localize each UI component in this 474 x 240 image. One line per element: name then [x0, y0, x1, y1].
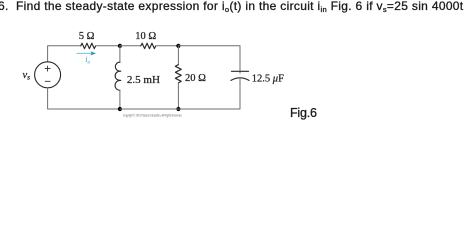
svg-text:2.5 mH: 2.5 mH: [127, 74, 160, 86]
wire: top rail between 5 ohm and node A: [96, 45, 120, 47]
wire: top rail between 10 ohm and node B: [156, 45, 179, 47]
inductor L 2.5mH (vertical coil): [115, 62, 121, 90]
wire: right rail bottom (capacitor to bottom rail): [239, 78, 241, 109]
wire: top rail from node B to top-right corner: [178, 46, 240, 73]
svg-text:vs: vs: [23, 70, 31, 82]
resistor R 10ohm (horizontal zigzag): [141, 43, 156, 48]
wire: bottom rail: [120, 108, 240, 110]
wire: top rail between node A and 10 ohm: [120, 45, 141, 47]
svg-text:10 Ω: 10 Ω: [135, 31, 156, 42]
svg-text:12.5 μF: 12.5 μF: [252, 73, 284, 84]
node B (junction dot, top of 20 ohm branch): [176, 44, 180, 48]
wire: inductor branch top lead: [119, 46, 121, 62]
wire: 20 ohm branch bottom lead: [177, 83, 179, 109]
minus sign inside source: [45, 80, 50, 82]
figure caption Fig.6: [290, 106, 317, 120]
svg-text:io: io: [85, 55, 90, 65]
capacitor C 12.5uF curved bottom plate: [231, 78, 249, 81]
resistor R 20ohm (vertical zigzag): [175, 65, 181, 83]
node (junction dot, bottom of inductor branch): [118, 107, 122, 111]
wire: inductor branch bottom lead: [119, 90, 121, 109]
voltage source Vs (circle with plus minus): [35, 62, 61, 88]
svg-text:5 Ω: 5 Ω: [79, 31, 95, 42]
circuit schematic: [0, 0, 474, 126]
svg-text:20 Ω: 20 Ω: [185, 73, 206, 84]
node A (junction dot, top of inductor branch): [118, 44, 122, 48]
plus sign inside source: [45, 66, 50, 71]
wire: left rail bottom (source to bottom rail): [48, 88, 120, 109]
current arrow i_o (teal): [77, 52, 91, 54]
resistor R 5ohm (horizontal zigzag): [81, 43, 96, 48]
svg-text:Copyright © 2015 Pearson Educa: Copyright © 2015 Pearson Education, All …: [123, 113, 182, 117]
node (junction dot, bottom of 20 ohm branch): [176, 107, 180, 111]
wire: top rail left segment (source to 5 ohm resistor): [48, 46, 81, 62]
capacitor C 12.5uF top plate: [232, 70, 249, 72]
problem statement text: [0, 0, 463, 15]
wire: 20 ohm branch top lead: [177, 46, 179, 65]
